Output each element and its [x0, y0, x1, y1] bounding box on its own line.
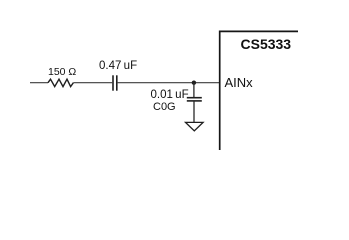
label 0.01 uF: [151, 90, 189, 102]
wire from C1 to chip pin: [118, 82, 220, 84]
node junction dot: [192, 81, 196, 85]
wire left lead: [30, 82, 48, 84]
capacitor C1 0.47 uF: [113, 75, 117, 90]
wire C2 to ground: [193, 102, 195, 123]
capacitor C2 0.01 uF C0G: [187, 98, 202, 101]
label CS5333 part number: [241, 37, 292, 51]
label 0.47 uF: [99, 61, 137, 73]
resistor R1 150 Ohm: [48, 79, 73, 86]
ground: [186, 122, 204, 130]
wire between resistor and capacitor C1: [73, 82, 112, 84]
label AINx pin name: [225, 76, 253, 89]
IC U1 CS5333 outline: [220, 31, 298, 150]
label 150 Ohm: [48, 67, 76, 78]
label C0G: [153, 102, 176, 113]
wire junction down to C2: [193, 83, 195, 97]
